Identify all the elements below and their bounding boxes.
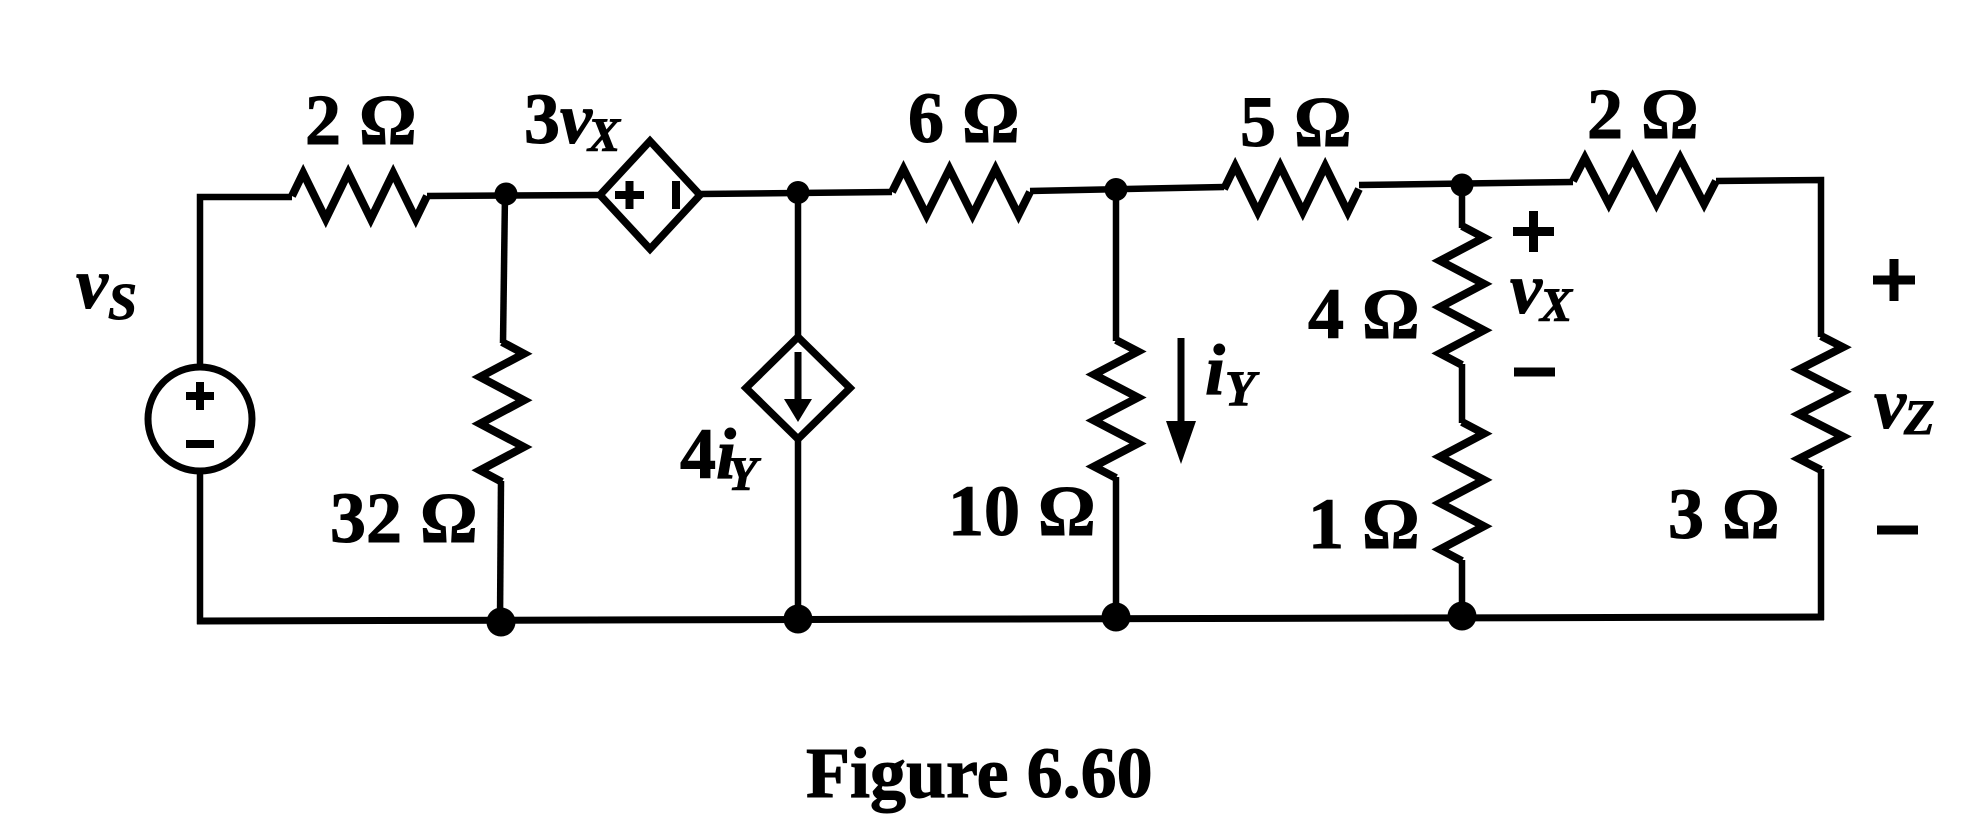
wire: node B down to CCCS — [795, 192, 802, 338]
wire: node D down to 4-ohm — [1459, 185, 1466, 228]
wire: 32-ohm down to bottom node — [500, 481, 501, 620]
wire: 4-ohm to 1-ohm — [1459, 364, 1466, 423]
svg-text:2 Ω: 2 Ω — [1587, 74, 1699, 154]
bottom node dot below 10-ohm — [1102, 603, 1131, 632]
wire: 3-ohm down to bottom-right corner — [1818, 469, 1825, 620]
dependent voltage source 3vX (diamond with + -) — [600, 141, 700, 249]
svg-text:vX: vX — [1510, 249, 1573, 332]
svg-text:Figure 6.60: Figure 6.60 — [806, 733, 1153, 813]
bottom node dot below CCCS — [784, 605, 813, 634]
svg-text:5 Ω: 5 Ω — [1240, 82, 1352, 162]
svg-text:6 Ω: 6 Ω — [908, 78, 1020, 158]
bottom ground rail wire — [197, 617, 1824, 621]
svg-text:iY: iY — [1205, 330, 1260, 416]
current arrow iY (beside 10-ohm) — [1166, 338, 1196, 464]
voltage source vS (circle with + -) — [148, 367, 252, 471]
svg-text:32 Ω: 32 Ω — [330, 478, 478, 558]
svg-text:vZ: vZ — [1874, 364, 1935, 445]
resistor R1 2ohm (top left) — [292, 173, 427, 219]
wire: vS down to bottom-left corner — [200, 474, 210, 621]
wire: 2-ohm to top-right corner down to 3-ohm — [1716, 180, 1821, 337]
svg-text:1 Ω: 1 Ω — [1308, 484, 1420, 564]
resistor R3 5ohm — [1224, 166, 1359, 212]
node C junction dot — [1105, 178, 1128, 201]
wire: 10-ohm down to bottom node — [1113, 477, 1120, 616]
resistor R9 3ohm (vertical, right side) — [1799, 336, 1843, 470]
label + polarity of vX — [1513, 211, 1554, 252]
svg-text:2 Ω: 2 Ω — [305, 80, 417, 160]
svg-text:10 Ω: 10 Ω — [948, 471, 1096, 551]
resistor R6 10ohm (vertical) — [1094, 340, 1138, 478]
bottom node dot below 1-ohm — [1448, 602, 1477, 631]
svg-text:vS: vS — [76, 244, 137, 331]
bottom node dot below 32-ohm — [487, 608, 516, 637]
svg-text:3vX: 3vX — [524, 79, 621, 162]
resistor R5 32ohm (vertical) — [480, 342, 524, 482]
node A junction dot — [495, 183, 518, 206]
wire: 1-ohm down to bottom node — [1459, 560, 1466, 617]
wire: 2-ohm to VCVS through node A — [427, 195, 601, 196]
dependent current source 4iY (diamond with down arrow) — [746, 337, 850, 439]
svg-text:4 Ω: 4 Ω — [1308, 274, 1420, 354]
svg-text:4iY: 4iY — [680, 414, 761, 501]
wire: node C down to 10-ohm — [1113, 190, 1120, 341]
resistor R2 6ohm — [892, 169, 1030, 215]
label + polarity of vZ — [1873, 259, 1915, 301]
wire: left rail top (vS up to top-left corner, over to 2-ohm resistor) — [200, 197, 292, 365]
wire: node A down to 32-ohm — [503, 194, 505, 343]
wire: CCCS down to bottom node — [795, 438, 802, 618]
node B junction dot — [787, 181, 810, 204]
wire: 5-ohm to right 2-ohm through node D — [1359, 182, 1573, 185]
label - polarity of vZ — [1877, 526, 1918, 535]
resistor R8 1ohm (vertical) — [1440, 422, 1484, 561]
label - polarity of vX — [1514, 368, 1555, 377]
wire: 6-ohm to 5-ohm through node C — [1030, 187, 1224, 191]
resistor R4 2ohm (top right) — [1573, 158, 1716, 204]
resistor R7 4ohm (vertical) — [1440, 226, 1484, 365]
svg-text:3 Ω: 3 Ω — [1668, 474, 1780, 554]
wire: VCVS to 6-ohm through node B — [699, 192, 892, 194]
node D junction dot — [1451, 174, 1474, 197]
